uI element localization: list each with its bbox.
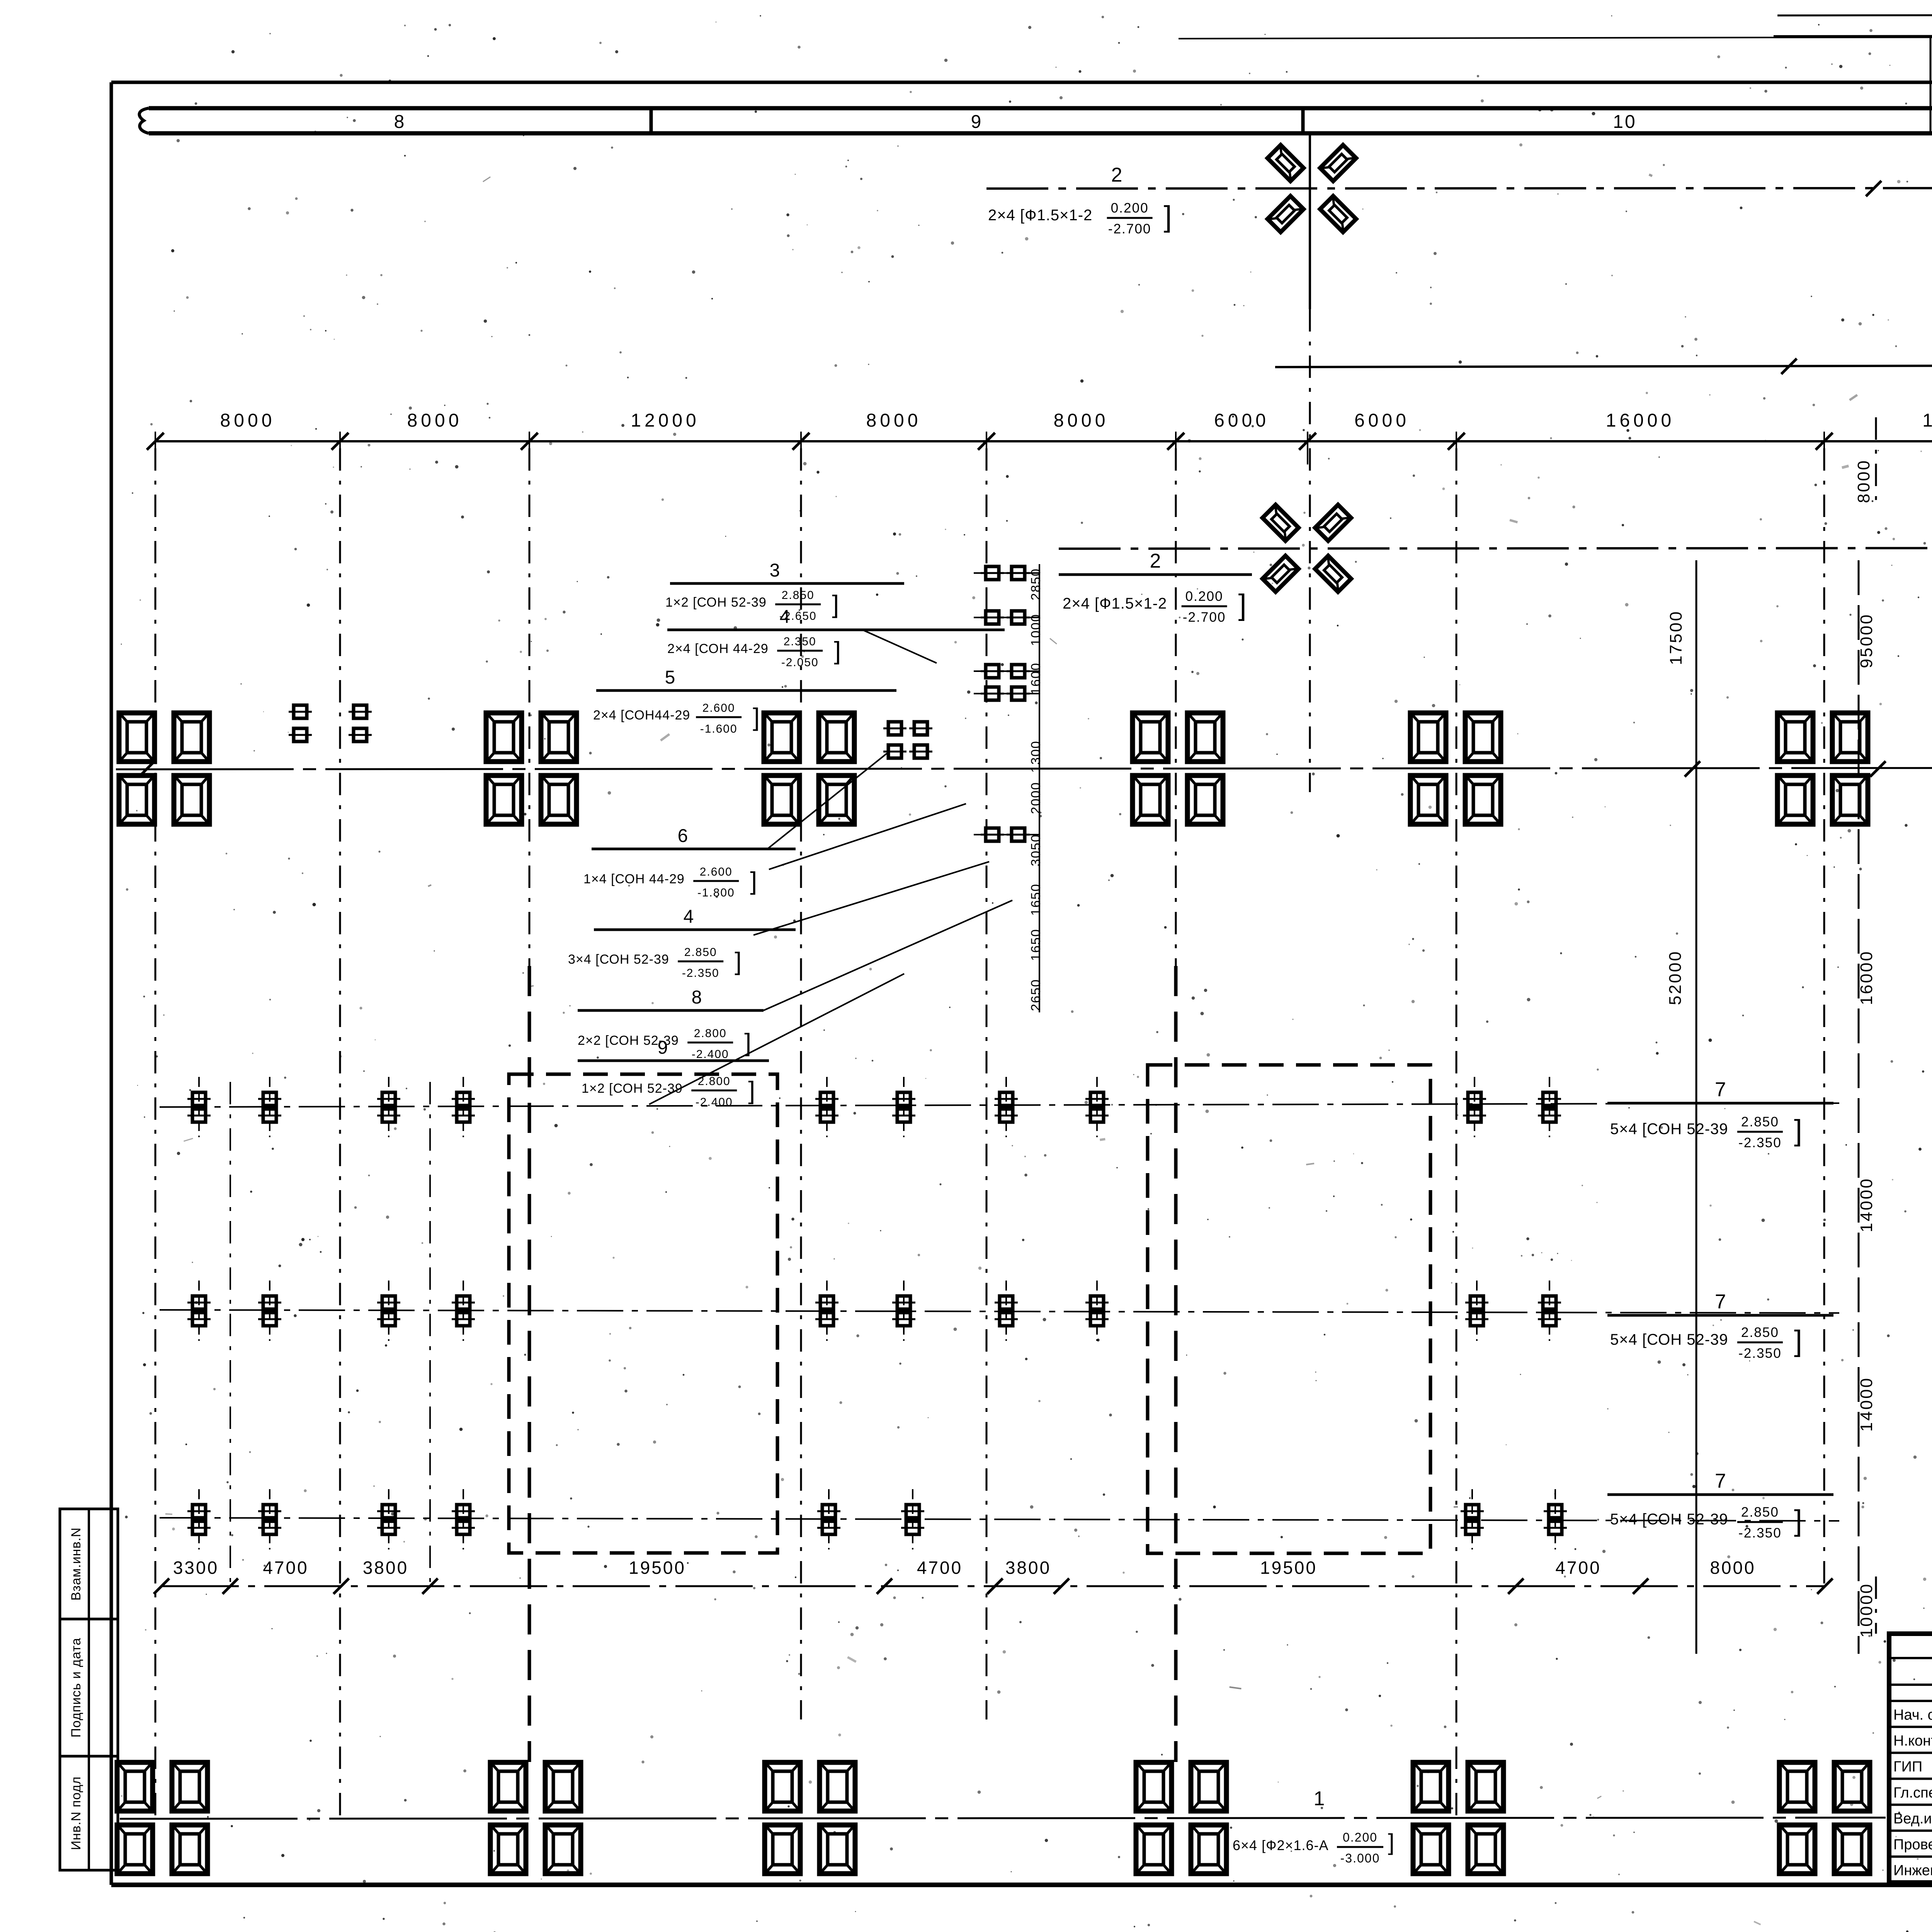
svg-text:52000: 52000 — [1666, 950, 1685, 1005]
svg-text:]: ] — [753, 703, 760, 731]
svg-text:16000: 16000 — [1606, 410, 1675, 431]
svg-text:95000: 95000 — [1857, 613, 1876, 668]
svg-text:Подпись и дата: Подпись и дата — [69, 1638, 83, 1738]
svg-text:]: ] — [832, 590, 839, 618]
svg-text:7: 7 — [1715, 1078, 1726, 1101]
svg-text:2.850: 2.850 — [1741, 1325, 1779, 1340]
svg-text:]: ] — [834, 637, 841, 665]
svg-text:8000: 8000 — [1054, 410, 1109, 431]
svg-text:1600: 1600 — [1029, 662, 1043, 695]
svg-text:6000: 6000 — [1354, 410, 1410, 431]
svg-text:Инженер: Инженер — [1893, 1862, 1932, 1879]
svg-text:]: ] — [735, 947, 742, 975]
svg-text:6000: 6000 — [1214, 410, 1269, 431]
svg-text:8000: 8000 — [1710, 1558, 1755, 1578]
svg-text:5: 5 — [665, 667, 675, 688]
svg-text:14000: 14000 — [1857, 1377, 1876, 1432]
svg-text:3×4 [СОН 52-39: 3×4 [СОН 52-39 — [568, 952, 669, 967]
svg-text:-1.600: -1.600 — [700, 723, 738, 735]
svg-text:8000: 8000 — [1854, 459, 1873, 503]
svg-text:-2.350: -2.350 — [682, 967, 719, 980]
svg-text:3800: 3800 — [363, 1558, 408, 1578]
svg-text:-2.050: -2.050 — [781, 656, 819, 669]
svg-text:10: 10 — [1613, 112, 1636, 132]
svg-text:4700: 4700 — [1555, 1558, 1601, 1578]
svg-text:-2.350: -2.350 — [1738, 1526, 1782, 1541]
svg-text:3300: 3300 — [173, 1558, 219, 1578]
svg-text:-2.400: -2.400 — [696, 1096, 733, 1109]
svg-text:3800: 3800 — [1005, 1558, 1051, 1578]
svg-text:9: 9 — [658, 1037, 668, 1058]
svg-text:2×4 [СОН 44-29: 2×4 [СОН 44-29 — [667, 641, 769, 656]
svg-text:-3.000: -3.000 — [1340, 1851, 1380, 1865]
svg-text:Нач. отд: Нач. отд — [1893, 1707, 1932, 1723]
svg-text:2.850: 2.850 — [1741, 1505, 1779, 1520]
svg-text:Инв.N подл: Инв.N подл — [69, 1776, 83, 1850]
svg-text:2.850: 2.850 — [1741, 1114, 1779, 1129]
svg-text:-2.400: -2.400 — [692, 1048, 729, 1061]
svg-text:2850: 2850 — [1029, 568, 1043, 600]
svg-text:5×4 [СОН 52-39: 5×4 [СОН 52-39 — [1610, 1331, 1728, 1348]
svg-text:2.850: 2.850 — [684, 946, 717, 959]
svg-text:14000: 14000 — [1857, 1177, 1876, 1232]
svg-text:Провер.: Провер. — [1893, 1837, 1932, 1853]
svg-text:]: ] — [1388, 1829, 1396, 1855]
svg-text:ГИП: ГИП — [1893, 1759, 1922, 1775]
svg-text:2×4 [Ф1.5×1-2: 2×4 [Ф1.5×1-2 — [1063, 595, 1167, 612]
svg-text:]: ] — [748, 1077, 755, 1104]
svg-text:4: 4 — [684, 906, 694, 927]
svg-text:3050: 3050 — [1029, 834, 1043, 866]
svg-text:2650: 2650 — [1029, 979, 1043, 1011]
svg-text:Гл.спец: Гл.спец — [1893, 1785, 1932, 1801]
svg-text:-2.700: -2.700 — [1183, 610, 1226, 625]
svg-text:10000: 10000 — [1857, 1583, 1876, 1638]
svg-text:5×4 [СОН 52-39: 5×4 [СОН 52-39 — [1610, 1121, 1728, 1138]
svg-text:0.200: 0.200 — [1111, 201, 1149, 216]
svg-text:]: ] — [1794, 1504, 1802, 1537]
svg-text:Взам.инв.N: Взам.инв.N — [69, 1527, 83, 1601]
svg-text:2: 2 — [1111, 164, 1122, 186]
svg-text:6: 6 — [678, 826, 688, 846]
svg-text:2.800: 2.800 — [694, 1027, 727, 1040]
svg-text:]: ] — [1794, 1114, 1802, 1147]
svg-text:8: 8 — [394, 112, 406, 132]
svg-text:2×4 [Ф1.5×1-2: 2×4 [Ф1.5×1-2 — [988, 207, 1092, 224]
svg-text:1650: 1650 — [1029, 929, 1043, 961]
svg-text:4700: 4700 — [263, 1558, 308, 1578]
svg-text:1650: 1650 — [1029, 883, 1043, 916]
svg-text:2000: 2000 — [1029, 782, 1043, 814]
svg-text:1: 1 — [1314, 1787, 1327, 1810]
svg-text:12000: 12000 — [1922, 410, 1932, 431]
svg-text:4700: 4700 — [917, 1558, 963, 1578]
svg-text:4: 4 — [780, 607, 790, 627]
svg-text:1×2 [СОН 52-39: 1×2 [СОН 52-39 — [582, 1081, 683, 1096]
svg-text:1×2 [СОН 52-39: 1×2 [СОН 52-39 — [665, 595, 767, 610]
svg-text:1×4 [СОН 44-29: 1×4 [СОН 44-29 — [583, 872, 685, 886]
svg-text:-2.350: -2.350 — [1738, 1135, 1782, 1150]
svg-text:16000: 16000 — [1857, 950, 1876, 1005]
svg-text:19500: 19500 — [1260, 1558, 1317, 1578]
svg-text:]: ] — [1238, 588, 1247, 621]
svg-text:12000: 12000 — [631, 410, 699, 431]
svg-text:Н.контр.: Н.контр. — [1893, 1733, 1932, 1749]
svg-text:]: ] — [1794, 1325, 1802, 1357]
svg-text:-2.350: -2.350 — [1738, 1346, 1782, 1361]
svg-text:2.600: 2.600 — [702, 702, 735, 714]
svg-text:6×4 [Ф2×1.6-А: 6×4 [Ф2×1.6-А — [1233, 1837, 1329, 1853]
svg-text:0.200: 0.200 — [1185, 589, 1223, 604]
svg-text:3: 3 — [770, 560, 780, 581]
svg-text:1300: 1300 — [1029, 740, 1043, 773]
svg-text:8: 8 — [692, 987, 702, 1008]
svg-text:8000: 8000 — [220, 410, 276, 431]
svg-text:17500: 17500 — [1667, 610, 1685, 665]
svg-text:1000: 1000 — [1029, 614, 1043, 646]
svg-text:19500: 19500 — [629, 1558, 686, 1578]
svg-text:-2.700: -2.700 — [1108, 221, 1151, 236]
svg-text:7: 7 — [1715, 1470, 1726, 1492]
svg-text:7: 7 — [1715, 1291, 1726, 1313]
svg-text:5×4 [СОН 52-39: 5×4 [СОН 52-39 — [1610, 1511, 1728, 1528]
svg-text:9: 9 — [971, 112, 983, 132]
svg-text:2×4 [СОН44-29: 2×4 [СОН44-29 — [593, 708, 690, 723]
svg-text:]: ] — [1164, 200, 1172, 233]
svg-text:8000: 8000 — [866, 410, 922, 431]
svg-text:2.850: 2.850 — [782, 589, 815, 602]
svg-text:2: 2 — [1150, 550, 1161, 572]
svg-text:2.600: 2.600 — [700, 866, 733, 878]
svg-text:0.200: 0.200 — [1343, 1830, 1378, 1844]
svg-text:2.350: 2.350 — [784, 635, 816, 648]
svg-text:]: ] — [750, 867, 757, 895]
svg-text:8000: 8000 — [407, 410, 463, 431]
